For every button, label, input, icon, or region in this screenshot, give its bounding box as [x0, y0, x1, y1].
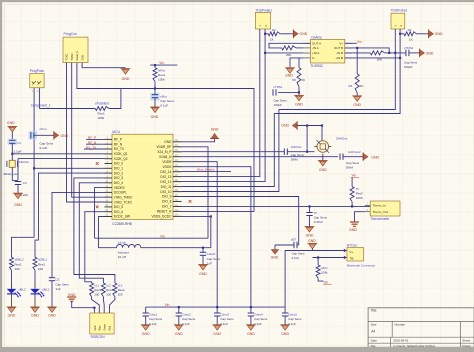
designator Cdec5	[288, 313, 302, 326]
resistor cPushBut	[95, 107, 109, 111]
svg-text:0.47uF: 0.47uF	[314, 220, 324, 224]
svg-text:VDDS: VDDS	[163, 165, 172, 169]
resistor R6	[297, 68, 301, 87]
wire DCOUPL to C5	[52, 192, 105, 277]
svg-text:DIO_6: DIO_6	[114, 210, 123, 214]
wire DIO_2 LED1 net	[35, 173, 105, 257]
value cPon	[40, 142, 54, 151]
svg-text:OpAmp: OpAmp	[311, 36, 322, 40]
designator Cdec2	[182, 313, 196, 326]
GND text C5	[48, 314, 56, 318]
svg-text:Gnd: Gnd	[94, 325, 97, 330]
svg-text:Cdcdc: Cdcdc	[207, 252, 216, 256]
svg-text:DIO_3: DIO_3	[114, 176, 123, 180]
svg-text:Number: Number	[395, 322, 406, 326]
capacitor cBT	[275, 242, 299, 248]
svg-text:GND: GND	[306, 233, 314, 237]
wire Th top	[351, 178, 353, 187]
ground symbol MCU GND pin	[210, 133, 219, 138]
capacitor C4	[8, 139, 17, 154]
capacitor Th cap	[306, 206, 312, 226]
wire gnd to C4	[11, 132, 13, 140]
svg-text:ProgPush: ProgPush	[30, 69, 45, 73]
op-amp U1 TLV9011	[310, 39, 344, 63]
wire ProgCon pin2 to JTAG_TMSC	[72, 63, 105, 198]
svg-text:0.1uF: 0.1uF	[292, 256, 300, 260]
wire NRst bottom	[154, 81, 156, 88]
wire cTDS1 row	[278, 91, 299, 93]
value Bluetooth Connector	[347, 263, 375, 267]
svg-text:TDSProbe2: TDSProbe2	[391, 8, 408, 12]
svg-text:GND: GND	[349, 228, 357, 232]
designator sL2	[106, 283, 113, 296]
GND text Cdec2	[175, 332, 183, 336]
svg-text:0.1uF: 0.1uF	[160, 104, 168, 108]
svg-text:100: 100	[15, 267, 20, 271]
ground symbol cHFOsc2	[363, 152, 368, 161]
wire sL2 to pin	[102, 297, 105, 313]
wire DIO_6 to sL1	[85, 212, 105, 283]
wire IsPU bottom	[318, 278, 324, 281]
svg-text:OUT B: OUT B	[334, 46, 343, 50]
svg-text:C5: C5	[56, 278, 60, 282]
svg-text:RF_N: RF_N	[114, 142, 123, 146]
value C4 1.2pF	[14, 150, 22, 154]
no connect DIO_0 mark	[96, 162, 99, 165]
value C3 1.2pF	[20, 193, 28, 197]
svg-text:Cdec3: Cdec3	[220, 313, 229, 317]
svg-text:-IN A: -IN A	[312, 46, 319, 50]
designator dBL2	[19, 287, 26, 291]
svg-text:RGBCON: RGBCON	[91, 335, 106, 339]
GND text cPon	[61, 134, 69, 138]
svg-text:cHFOsc2: cHFOsc2	[348, 150, 361, 154]
connector BTCon	[347, 248, 364, 262]
svg-text:32kOsc: 32kOsc	[19, 160, 30, 164]
svg-text:Vin: Vin	[159, 61, 164, 65]
ground symbol R4	[417, 29, 434, 38]
value CC2650-RHB	[112, 222, 132, 226]
svg-text:+IN A: +IN A	[312, 51, 319, 55]
wire ProgPush pin2	[38, 88, 40, 109]
ground symbol Th cap	[305, 227, 315, 232]
svg-text:TCKC: TCKC	[65, 53, 69, 60]
svg-text:200: 200	[118, 293, 123, 297]
designator Cdec1	[149, 313, 163, 326]
designator RGBCON	[91, 335, 106, 339]
svg-text:R6: R6	[292, 78, 296, 82]
svg-text:DIO_11: DIO_11	[161, 185, 172, 189]
svg-text:1.2pF: 1.2pF	[14, 150, 22, 154]
GND text R4	[435, 32, 443, 36]
svg-text:Thermometer: Thermometer	[370, 217, 390, 221]
wire DIO_11 from rail B	[182, 114, 275, 187]
capacitor C5	[49, 278, 55, 307]
net label Vin IsPU underline	[323, 283, 332, 285]
ground symbol BT pin	[308, 243, 318, 248]
designator cTDS2	[404, 46, 414, 50]
svg-text:Cap Sens: Cap Sens	[292, 252, 306, 256]
IC MCU CC2650-RHB	[105, 134, 182, 219]
svg-text:100pF: 100pF	[273, 103, 282, 107]
svg-text:DIO_7: DIO_7	[162, 205, 171, 209]
svg-text:dBL1: dBL1	[42, 287, 49, 291]
net label RF_N	[88, 141, 97, 145]
svg-text:DNM: DNM	[346, 166, 353, 170]
capacitor Cdec5	[282, 307, 288, 325]
svg-text:JTAG_TMSC: JTAG_TMSC	[114, 195, 133, 199]
ground symbol C3	[13, 193, 23, 198]
resistor R4	[404, 32, 417, 36]
title block text A4	[371, 330, 375, 334]
junction VDDS_DCDC	[210, 215, 212, 217]
junction TDS1 plus in	[264, 52, 266, 54]
svg-text:GND: GND	[281, 332, 289, 336]
svg-text:Res1: Res1	[15, 262, 22, 266]
ground symbol Cdec5	[280, 325, 290, 330]
junction Cdcdc	[202, 247, 204, 249]
svg-text:Cap Sens: Cap Sens	[182, 317, 196, 321]
svg-text:Date: Date	[371, 338, 378, 342]
junction cTDS1	[298, 91, 300, 93]
svg-text:MCU: MCU	[112, 130, 120, 134]
value TLV9011	[310, 64, 323, 68]
wire DIO_9 to cBT net	[182, 197, 299, 246]
svg-text:Res3: Res3	[118, 288, 125, 292]
wire VDDR2 to Vin loop	[95, 188, 105, 239]
svg-text:TB: TB	[350, 256, 354, 260]
wire sL3 to pin	[110, 297, 115, 313]
svg-text:GND: GND	[31, 314, 39, 318]
net label Blue_Enable	[197, 168, 214, 172]
svg-text:cPon: cPon	[40, 127, 47, 131]
wire OUT B feedback	[345, 48, 389, 53]
GND text Cdec3	[213, 332, 221, 336]
value 32kHz_osc	[3, 172, 18, 176]
svg-text:Cdec1: Cdec1	[149, 313, 158, 317]
svg-text:100: 100	[38, 267, 43, 271]
svg-text:Vin: Vin	[357, 40, 362, 44]
connector TDSProbe2	[391, 13, 405, 29]
svg-text:Res3: Res3	[356, 192, 363, 196]
value cTDS1	[273, 99, 287, 108]
svg-text:GND: GND	[61, 134, 69, 138]
net label Vin thermo	[352, 174, 357, 178]
resistor IsPU	[316, 265, 320, 278]
wire +IN B row	[345, 57, 352, 59]
svg-text:DIO_8: DIO_8	[162, 200, 171, 204]
net label Vin IsPU	[324, 280, 329, 284]
designator MCU	[112, 130, 120, 134]
designator sL1	[94, 283, 101, 296]
svg-text:100k: 100k	[98, 116, 105, 120]
svg-text:Cap Sens: Cap Sens	[291, 153, 305, 157]
GND text cBT	[271, 255, 279, 259]
svg-text:Cap Sens: Cap Sens	[220, 317, 234, 321]
svg-text:Res3: Res3	[94, 288, 101, 292]
wire LED2 net lower	[12, 237, 35, 257]
svg-text:cTDS2: cTDS2	[404, 46, 414, 50]
wire X32K_Q2 drop	[17, 159, 19, 180]
ground symbol nRst	[150, 107, 160, 112]
svg-text:1K: 1K	[302, 78, 306, 82]
svg-text:GND: GND	[80, 55, 84, 61]
svg-text:GND: GND	[213, 332, 221, 336]
svg-text:Sheet: Sheet	[462, 338, 470, 342]
wire RGB gnd	[72, 301, 95, 313]
wire R5 top	[356, 48, 358, 74]
svg-text:Cap Sens: Cap Sens	[207, 257, 221, 261]
net label Vin at NRst	[159, 61, 164, 65]
designator OpAmp	[311, 36, 322, 40]
wire MCU GND pin	[182, 139, 215, 142]
wire 24M row to cap1	[306, 126, 308, 152]
svg-text:TMSC: TMSC	[70, 53, 74, 60]
capacitor Cdec3	[214, 307, 220, 325]
wire BT pin2	[312, 257, 343, 259]
wire R5 bottom	[356, 93, 358, 96]
svg-text:C4: C4	[17, 141, 21, 145]
wire X24_M_P	[182, 151, 285, 153]
svg-text:DIO_10: DIO_10	[160, 190, 171, 194]
svg-text:VDDS_DCDC: VDDS_DCDC	[152, 215, 173, 219]
GND text Cdec5	[281, 332, 289, 336]
ground symbol Cdec3	[212, 325, 222, 330]
wire TDS2 pin1 rail A	[279, 29, 395, 110]
wire R6 top	[298, 58, 300, 68]
capacitor nRst	[150, 89, 159, 108]
svg-text:Cap Sens: Cap Sens	[56, 282, 70, 286]
junction OUT B feedback	[388, 52, 390, 54]
inductor Ldcdc	[117, 244, 141, 247]
svg-text:Cap Sens: Cap Sens	[314, 216, 328, 220]
svg-text:1K: 1K	[270, 38, 274, 42]
designator ProgCon	[64, 32, 77, 36]
wire VDDR to Vin rail	[182, 162, 218, 307]
svg-text:GND: GND	[300, 32, 308, 36]
svg-text:R2: R2	[272, 28, 276, 32]
wire R1 to -IN A	[296, 47, 303, 49]
wire DIO_4 to sL2	[79, 183, 104, 283]
ProgPush pin numbers	[32, 90, 39, 93]
value cTDS2	[404, 60, 418, 69]
ground symbol cTDS2	[409, 49, 425, 58]
wire crystal to C3	[11, 167, 13, 180]
wire RF_P	[86, 138, 105, 140]
capacitor cTDS2	[406, 50, 409, 56]
ground symbol cPon	[34, 131, 59, 140]
ground symbol Cdec4	[246, 325, 256, 330]
svg-text:Bluetooth Connector: Bluetooth Connector	[347, 263, 375, 267]
wire C3 to gnd	[17, 185, 19, 194]
value cPushBut	[98, 112, 106, 121]
svg-text:TLV9011: TLV9011	[310, 64, 323, 68]
ProgCon pin numbers	[66, 65, 84, 68]
GND text ProgCon	[122, 77, 130, 81]
wire IsPU top	[317, 258, 319, 266]
svg-text:R5: R5	[349, 84, 353, 88]
wire sL1 to pin	[92, 297, 100, 313]
svg-text:Res3: Res3	[106, 288, 113, 292]
net label Vin below MCU	[160, 234, 165, 238]
no connect DIO_5 mark	[96, 205, 99, 208]
resistor NRst	[153, 68, 157, 82]
crystal 24MOsc	[314, 140, 331, 152]
net label Vin thermo underline	[351, 177, 360, 179]
wire button row right up to reset net	[109, 89, 121, 109]
GND text 32k	[7, 121, 15, 125]
svg-text:-IN B: -IN B	[336, 51, 343, 55]
svg-text:GND: GND	[353, 103, 361, 107]
connector TDSProbe1	[255, 12, 270, 29]
opamp pin stubs	[303, 43, 351, 58]
designator sL3	[118, 283, 125, 296]
junction IsPU	[317, 256, 319, 258]
wire R4 stub	[400, 33, 404, 35]
LED dBL1	[30, 284, 44, 298]
svg-text:Size: Size	[371, 322, 377, 326]
capacitor cHFOsc	[284, 145, 307, 155]
wire -IN B row	[345, 52, 371, 54]
wire 24M gnd row	[297, 126, 322, 142]
wire R2 stub	[265, 33, 268, 35]
resistor sDBL2	[10, 257, 14, 270]
svg-text:Therm_In: Therm_In	[373, 204, 387, 208]
svg-text:DIO_9: DIO_9	[162, 195, 171, 199]
svg-text:DNM: DNM	[291, 158, 298, 162]
GND text RGB	[68, 293, 76, 297]
ground symbol Therm	[350, 222, 359, 226]
GND text Cdcdc	[199, 272, 207, 276]
title block text File	[371, 344, 472, 348]
designator Cdec4	[254, 313, 268, 326]
junction ProgPush DIO_1	[33, 167, 35, 169]
connector RGBCON	[90, 313, 114, 334]
svg-text:GND: GND	[142, 332, 150, 336]
svg-text:cBT: cBT	[291, 237, 297, 241]
svg-text:Cap Sens: Cap Sens	[149, 317, 163, 321]
designator Cdec3	[220, 313, 234, 326]
resistor R2 tds1	[268, 32, 280, 36]
resistor sDBL1	[33, 257, 37, 270]
wire crystal bottom gnd	[322, 154, 324, 161]
resistor R3 20K	[370, 51, 384, 55]
svg-text:VDDR: VDDR	[162, 160, 172, 164]
svg-text:Reset_N: Reset_N	[76, 51, 79, 61]
svg-text:GND: GND	[247, 332, 255, 336]
designator sDBL2	[15, 258, 24, 271]
wire VDDR_RF to Vin loop	[182, 147, 208, 238]
svg-text:CC2650-RHB: CC2650-RHB	[112, 222, 132, 226]
junction reset net at NRst	[154, 87, 156, 89]
wire cBT gnd stem	[274, 245, 276, 249]
text Component_1	[31, 104, 51, 108]
connector Thermometer	[370, 201, 400, 216]
svg-text:nRst: nRst	[160, 95, 167, 99]
wire Th bottom	[351, 202, 353, 207]
wire dBL2 anode	[11, 270, 13, 284]
value inductor	[118, 251, 129, 260]
svg-text:ProgCon: ProgCon	[64, 32, 77, 36]
wire inductor to cap	[141, 247, 211, 249]
wire RX_TX	[84, 148, 105, 150]
svg-text:Inductor: Inductor	[118, 251, 129, 255]
junction TDS1 pin2 R2	[264, 33, 266, 35]
designator BTCon	[347, 243, 357, 247]
ground symbol cBT	[271, 250, 279, 255]
designator IsPU	[321, 266, 328, 275]
svg-text:X32K_Q2: X32K_Q2	[114, 157, 128, 161]
svg-text:X24M_N: X24M_N	[159, 155, 172, 159]
junction R5 top	[356, 47, 358, 49]
capacitor cTDS1	[273, 73, 290, 95]
GND text cHFOsc2	[371, 155, 379, 159]
ground symbol R5	[352, 96, 362, 101]
svg-text:1K: 1K	[409, 38, 413, 42]
svg-text:IsPU: IsPU	[321, 266, 328, 270]
svg-text:Cap Sens: Cap Sens	[273, 99, 287, 103]
svg-text:R4: R4	[408, 28, 412, 32]
capacitor Cdec1	[143, 307, 149, 325]
GND text Th cap	[306, 233, 314, 237]
svg-text:OUT A: OUT A	[312, 41, 321, 45]
designator C3	[23, 181, 27, 185]
ground symbol 24M bottom	[318, 161, 328, 166]
svg-text:GND: GND	[8, 314, 16, 318]
designator C5	[56, 278, 70, 291]
svg-text:Component_1: Component_1	[31, 104, 51, 108]
svg-text:cPushBut: cPushBut	[95, 101, 109, 105]
svg-text:DIO_4: DIO_4	[114, 181, 123, 185]
wire R6 bottom	[298, 87, 300, 93]
svg-text:sL1: sL1	[94, 283, 99, 287]
ground symbol Cdec2	[174, 325, 184, 330]
ground symbol V- A	[285, 68, 295, 73]
svg-text:GND: GND	[295, 103, 303, 107]
wire C3 link	[12, 180, 18, 182]
svg-text:+IN B: +IN B	[335, 56, 343, 60]
capacitor cHFOsc2	[340, 154, 363, 160]
capacitor Cdec2	[176, 307, 182, 325]
svg-text:GND: GND	[308, 239, 316, 243]
junction Cdec2	[178, 306, 180, 308]
wire ProgCon pin1 to JTAG_TCKC	[67, 63, 105, 203]
svg-text:GND: GND	[175, 332, 183, 336]
ground symbol for ProgCon	[121, 69, 131, 74]
svg-text:DIO_13: DIO_13	[160, 175, 171, 179]
svg-text:Cap Sens: Cap Sens	[254, 317, 268, 321]
GND text C3	[14, 203, 22, 207]
svg-text:BTCon: BTCon	[347, 243, 357, 247]
wire DIO_10 from rail A	[182, 110, 279, 192]
svg-text:DIO_12: DIO_12	[160, 180, 171, 184]
junction 24M row b	[321, 124, 323, 126]
svg-text:GND: GND	[426, 52, 434, 56]
value R1 20K	[286, 53, 291, 57]
svg-text:Th: Th	[356, 187, 360, 191]
connector ProgCon	[63, 37, 88, 62]
designator nRst cap	[160, 95, 174, 108]
resistor R5	[355, 74, 359, 93]
wire R6 gnd stem	[298, 92, 300, 95]
ground symbol dBL2	[7, 307, 17, 312]
net label RX_TX	[86, 146, 97, 150]
GND text Cdec1	[142, 332, 150, 336]
ground symbol R6 bottom	[294, 95, 304, 100]
BTCon pin arrows	[344, 249, 347, 259]
svg-text:V-: V-	[312, 56, 315, 60]
svg-text:GND: GND	[164, 140, 172, 144]
